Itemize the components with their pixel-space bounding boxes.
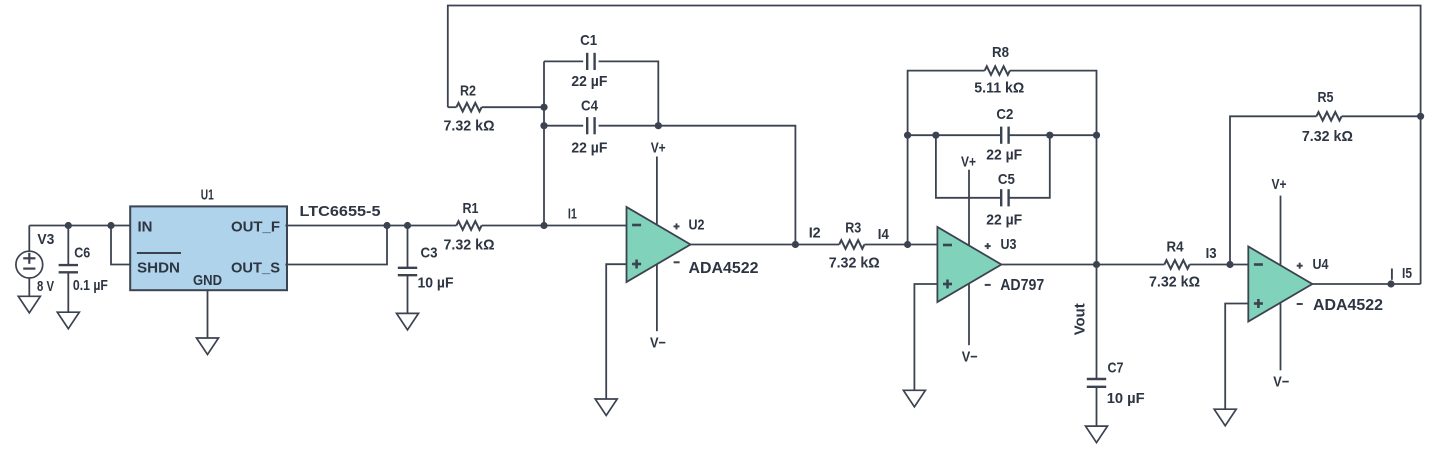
svg-text:ADA4522: ADA4522 bbox=[689, 260, 759, 277]
node C2 left junction bbox=[904, 132, 911, 139]
label C6 bbox=[74, 245, 90, 262]
ground (C7) bbox=[1086, 426, 1108, 443]
label - (U2 out) bbox=[674, 261, 680, 263]
svg-text:7.32 kΩ: 7.32 kΩ bbox=[1302, 128, 1353, 145]
op-amp U4 ADA4522 bbox=[1248, 247, 1312, 322]
wire SHDN link bbox=[111, 226, 131, 265]
pin label SHDN (with overline) bbox=[137, 253, 181, 276]
part name ADA4522 (U4) bbox=[1313, 297, 1383, 314]
svg-text:V+: V+ bbox=[961, 153, 976, 170]
wire C4 right bbox=[599, 125, 659, 127]
capacitor C2 bbox=[1001, 127, 1008, 144]
node I2 junction bbox=[792, 241, 799, 248]
label R3 bbox=[845, 219, 861, 236]
svg-text:C5: C5 bbox=[998, 171, 1015, 188]
label U3 bbox=[1001, 236, 1017, 253]
IC U1 LTC6655-5 body bbox=[130, 206, 287, 290]
node C2 right junction bbox=[1093, 132, 1100, 139]
value 8 V bbox=[37, 278, 54, 295]
net label Vout bbox=[1072, 303, 1089, 335]
wire C4 left bbox=[544, 125, 583, 127]
label I1 bbox=[568, 206, 577, 223]
value 10 µF (C7) bbox=[1107, 390, 1145, 407]
svg-text:C6: C6 bbox=[74, 245, 90, 262]
node IN/C6 junction bbox=[65, 222, 72, 229]
wire C3 to ground bbox=[407, 275, 409, 313]
svg-text:V+: V+ bbox=[1272, 176, 1287, 193]
wire R2 to summing node bbox=[482, 106, 544, 108]
part name AD797 bbox=[1000, 277, 1044, 294]
value 22 µF (C1) bbox=[571, 73, 607, 90]
current arrow I5 bbox=[1391, 269, 1393, 280]
svg-text:R1: R1 bbox=[463, 200, 479, 217]
node R2/C1 junction bbox=[540, 104, 547, 111]
label + (U4 out) bbox=[1297, 263, 1303, 269]
wire U1 GND pin bbox=[207, 290, 209, 338]
resistor R5 bbox=[1316, 112, 1341, 121]
op-amp U2 ADA4522 bbox=[627, 207, 691, 282]
svg-text:U2: U2 bbox=[689, 217, 705, 234]
wire R5 loop left bbox=[1230, 116, 1316, 264]
label U2 bbox=[689, 217, 705, 234]
value 0.1 µF bbox=[73, 277, 108, 294]
svg-text:C7: C7 bbox=[1108, 359, 1124, 376]
wire R1 to U2 bbox=[482, 225, 627, 227]
svg-text:I3: I3 bbox=[1206, 245, 1217, 262]
wire OUT_F row bbox=[285, 225, 456, 227]
wire C1 branch bbox=[544, 61, 658, 125]
capacitor C5 bbox=[1001, 189, 1008, 206]
ground (C6) bbox=[57, 312, 79, 329]
node R5/global loop junction bbox=[1417, 113, 1424, 120]
value 7.32 kΩ (R4) bbox=[1149, 274, 1200, 291]
op-amp U3 AD797 bbox=[937, 227, 1001, 302]
svg-text:7.32 kΩ: 7.32 kΩ bbox=[444, 237, 495, 254]
value 22 µF (C5) bbox=[986, 211, 1022, 228]
node C4 right junction bbox=[655, 122, 662, 129]
svg-text:C3: C3 bbox=[421, 245, 438, 262]
supply V- (U2) wire bbox=[656, 264, 658, 331]
label I5 bbox=[1402, 265, 1412, 282]
supply V- (U3) wire bbox=[968, 284, 970, 345]
value 22 µF (C2) bbox=[986, 147, 1022, 164]
wire V3 to ground bbox=[28, 278, 30, 296]
svg-text:V−: V− bbox=[1273, 373, 1289, 390]
node C3 junction bbox=[404, 222, 411, 229]
svg-text:IN: IN bbox=[138, 219, 153, 236]
svg-text:V3: V3 bbox=[37, 231, 54, 248]
label C4 bbox=[581, 98, 599, 115]
pin label OUT_F bbox=[231, 219, 280, 236]
svg-text:7.32 kΩ: 7.32 kΩ bbox=[1149, 274, 1200, 291]
ground (U4) bbox=[1214, 409, 1236, 426]
wire R8 loop right bbox=[1010, 71, 1097, 265]
wire C2 row left bbox=[908, 134, 1002, 136]
node C5 right junction bbox=[1046, 132, 1053, 139]
wire U2 + input bbox=[606, 264, 626, 399]
label + (U3 out) bbox=[985, 243, 991, 249]
wire IN node row bbox=[29, 225, 130, 227]
node OUT_S junction bbox=[383, 222, 390, 229]
label R5 bbox=[1318, 89, 1334, 106]
ground (U1) bbox=[197, 338, 219, 355]
svg-text:AD797: AD797 bbox=[1000, 277, 1044, 294]
label R8 bbox=[992, 44, 1009, 61]
value 7.32 kΩ (R2) bbox=[444, 117, 495, 134]
node U3 summing junction bbox=[904, 241, 911, 248]
svg-text:22 µF: 22 µF bbox=[986, 147, 1022, 164]
svg-text:U4: U4 bbox=[1313, 256, 1330, 273]
value 22 µF (C4) bbox=[571, 139, 607, 156]
svg-text:U3: U3 bbox=[1001, 236, 1017, 253]
wire C3 top bbox=[407, 226, 409, 268]
resistor R8 bbox=[985, 66, 1010, 75]
wire R4 to U4 bbox=[1190, 264, 1249, 266]
supply V- (U4) label bbox=[1273, 373, 1289, 390]
label I4 bbox=[878, 226, 890, 243]
node C4 left junction bbox=[540, 122, 547, 129]
label R2 bbox=[460, 82, 476, 99]
svg-text:OUT_S: OUT_S bbox=[231, 260, 280, 277]
ground (C3) bbox=[397, 313, 419, 330]
label R4 bbox=[1167, 238, 1185, 255]
wire U3 output bbox=[1001, 264, 1164, 266]
svg-text:5.11 kΩ: 5.11 kΩ bbox=[974, 79, 1024, 96]
capacitor C4 bbox=[587, 117, 594, 134]
svg-text:R3: R3 bbox=[845, 219, 861, 236]
resistor R2 bbox=[456, 103, 481, 112]
svg-text:I1: I1 bbox=[568, 206, 577, 223]
resistor R3 bbox=[839, 240, 864, 249]
wire global feedback loop (top) bbox=[448, 6, 1421, 285]
svg-text:I5: I5 bbox=[1402, 265, 1412, 282]
svg-text:R5: R5 bbox=[1318, 89, 1334, 106]
svg-text:22 µF: 22 µF bbox=[571, 73, 607, 90]
value 7.32 kΩ (R1) bbox=[444, 237, 495, 254]
voltage source V3 bbox=[16, 251, 43, 278]
svg-text:0.1 µF: 0.1 µF bbox=[73, 277, 108, 294]
supply V- (U4) wire bbox=[1280, 303, 1282, 371]
wire R5 loop right bbox=[1342, 115, 1421, 117]
supply V- (U2) label bbox=[650, 334, 666, 351]
label C1 bbox=[580, 32, 597, 49]
pin label GND bbox=[193, 272, 222, 289]
capacitor C7 bbox=[1087, 379, 1106, 387]
wire R3 to U3 bbox=[864, 244, 937, 246]
label C3 bbox=[421, 245, 438, 262]
wire U2 output bbox=[691, 244, 840, 246]
label I3 bbox=[1206, 245, 1217, 262]
svg-text:LTC6655-5: LTC6655-5 bbox=[300, 203, 381, 220]
svg-text:I4: I4 bbox=[878, 226, 890, 243]
label V3 bbox=[37, 231, 54, 248]
ground (V3) bbox=[18, 296, 40, 313]
node I5 junction bbox=[1387, 280, 1394, 287]
supply V- (U3) label bbox=[962, 349, 978, 366]
label I2 bbox=[809, 225, 821, 242]
label C5 bbox=[998, 171, 1015, 188]
supply V+ (U3) label bbox=[961, 153, 976, 170]
supply V+ (U4) wire bbox=[1280, 196, 1282, 266]
svg-text:10 µF: 10 µF bbox=[418, 275, 454, 292]
node R5/U4 junction bbox=[1226, 261, 1233, 268]
svg-text:R4: R4 bbox=[1167, 238, 1185, 255]
part name LTC6655-5 bbox=[300, 203, 381, 220]
wire C2 row right bbox=[1009, 134, 1097, 136]
svg-text:V+: V+ bbox=[651, 139, 666, 156]
wire V3 to IN node bbox=[28, 226, 30, 252]
node IN/SHDN junction bbox=[107, 222, 114, 229]
label U4 bbox=[1313, 256, 1330, 273]
capacitor C3 bbox=[398, 268, 417, 275]
svg-text:I2: I2 bbox=[809, 225, 821, 242]
svg-text:R2: R2 bbox=[460, 82, 476, 99]
svg-text:C2: C2 bbox=[996, 106, 1013, 123]
wire R8 loop left/top bbox=[908, 71, 985, 245]
svg-text:8 V: 8 V bbox=[37, 278, 54, 295]
svg-text:22 µF: 22 µF bbox=[986, 211, 1022, 228]
part name ADA4522 (U2) bbox=[689, 260, 759, 277]
label + (U2 out) bbox=[674, 223, 680, 229]
value 7.32 kΩ (R5) bbox=[1302, 128, 1353, 145]
wire U4 output bbox=[1312, 283, 1420, 285]
svg-text:U1: U1 bbox=[201, 187, 214, 204]
svg-text:C1: C1 bbox=[580, 32, 597, 49]
wire U3 + input bbox=[914, 284, 937, 390]
wire U4 + input bbox=[1225, 304, 1248, 410]
wire U2 feedback left vertical bbox=[543, 61, 545, 225]
ground (U2) bbox=[595, 399, 617, 416]
supply V+ (U2) wire bbox=[656, 157, 658, 226]
supply V+ (U2) label bbox=[651, 139, 666, 156]
wire Vout to C7 bbox=[1096, 265, 1098, 380]
pin label OUT_S bbox=[231, 260, 280, 277]
wire C6 to ground bbox=[67, 272, 69, 312]
label C2 bbox=[996, 106, 1013, 123]
ground (U3) bbox=[903, 390, 925, 407]
svg-text:C4: C4 bbox=[581, 98, 599, 115]
wire R2 left bbox=[448, 106, 457, 108]
svg-text:SHDN: SHDN bbox=[137, 259, 180, 276]
node C5 left junction bbox=[932, 132, 939, 139]
node Vout junction bbox=[1093, 261, 1100, 268]
capacitor C1 bbox=[587, 53, 594, 70]
svg-text:GND: GND bbox=[193, 272, 222, 289]
svg-text:V−: V− bbox=[650, 334, 666, 351]
resistor R4 bbox=[1164, 260, 1189, 269]
svg-text:10 µF: 10 µF bbox=[1107, 390, 1145, 407]
pin label IN bbox=[138, 219, 153, 236]
capacitor C6 bbox=[59, 265, 78, 272]
value 7.32 kΩ (R3) bbox=[829, 254, 880, 271]
label - (U4 out) bbox=[1297, 303, 1303, 305]
svg-text:Vout: Vout bbox=[1072, 303, 1089, 335]
svg-text:7.32 kΩ: 7.32 kΩ bbox=[829, 254, 880, 271]
svg-text:7.32 kΩ: 7.32 kΩ bbox=[444, 117, 495, 134]
svg-text:ADA4522: ADA4522 bbox=[1313, 297, 1383, 314]
svg-text:V−: V− bbox=[962, 349, 978, 366]
label R1 bbox=[463, 200, 479, 217]
label C7 bbox=[1108, 359, 1124, 376]
wire OUT_S loop bbox=[285, 226, 387, 265]
svg-text:R8: R8 bbox=[992, 44, 1009, 61]
label U1 bbox=[201, 187, 214, 204]
label - (U3 out) bbox=[985, 284, 991, 286]
resistor R1 bbox=[456, 221, 481, 230]
supply V+ (U4) label bbox=[1272, 176, 1287, 193]
supply V+ (U3) wire bbox=[968, 170, 970, 246]
wire C6 top bbox=[67, 226, 69, 266]
wire C5 loop left bbox=[936, 135, 1001, 198]
wire feedback to U2 output bbox=[658, 126, 795, 245]
wire C7 to ground bbox=[1096, 387, 1098, 426]
svg-text:OUT_F: OUT_F bbox=[231, 219, 280, 236]
node I1 summing junction bbox=[540, 222, 547, 229]
value 10 µF bbox=[418, 275, 454, 292]
svg-text:22 µF: 22 µF bbox=[571, 139, 607, 156]
wire C5 loop right bbox=[1009, 135, 1050, 198]
value 5.11 kΩ bbox=[974, 79, 1024, 96]
